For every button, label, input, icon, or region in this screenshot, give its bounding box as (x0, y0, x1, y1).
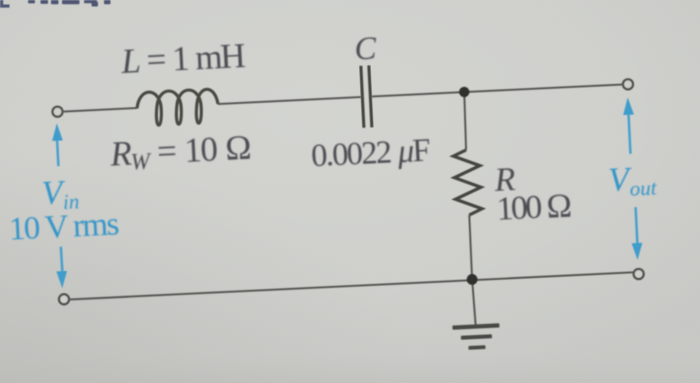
wire: ground stem (472, 282, 475, 326)
value label 10 V rms (source) (8, 206, 119, 247)
terminal: output bottom (633, 269, 643, 279)
circuit strokes (60, 84, 635, 345)
arrow Vin down (55, 246, 68, 288)
net label Vout (608, 160, 659, 202)
designator label C (354, 31, 378, 68)
wire: top rail middle segment (coil to capacitor) (218, 97, 361, 104)
arrow Vin up (51, 123, 64, 166)
cropped navy app text at top edge (0, 0, 111, 8)
wire: top rail right segment (capacitor to right terminal) (372, 84, 623, 96)
value label 100 ohm (496, 187, 572, 228)
node B junction dot (bottom rail, R-ground) (466, 274, 477, 285)
node A junction dot (top rail, C-R-Vout) (459, 87, 470, 98)
inductor L (coil, winding resistance RW) (136, 89, 219, 127)
terminal: input bottom (59, 294, 69, 304)
terminal: output top (623, 79, 633, 89)
ground symbol (452, 323, 500, 350)
arrow Vout down (630, 207, 643, 260)
wire: resistor top stem (463, 92, 467, 150)
wire: top rail left segment (63, 108, 137, 112)
value label 0.0022 uF (310, 133, 430, 175)
value label RW = 10 ohm (108, 128, 251, 176)
capacitor C (plates) (361, 65, 372, 127)
arrow Vout up (622, 97, 636, 154)
terminal: input top (52, 106, 62, 116)
designator label R (493, 161, 517, 199)
wire: resistor bottom stem (469, 215, 472, 279)
value label L = 1 mH (119, 36, 246, 81)
resistor R (zigzag) (453, 149, 482, 215)
wire: bottom rail (70, 272, 634, 300)
net label Vin (41, 173, 80, 215)
